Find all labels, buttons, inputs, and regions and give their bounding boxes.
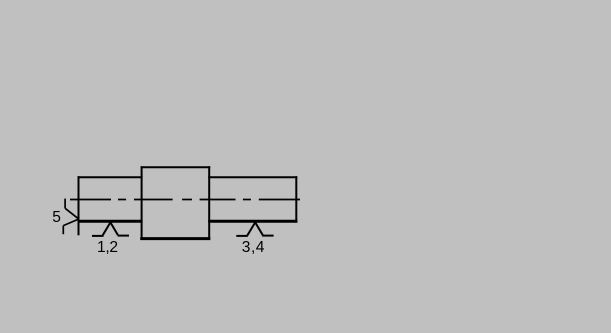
- bearing support 3,4 (under right shaft section): [236, 222, 273, 236]
- wire: left shaft section top line: [78, 176, 143, 178]
- wire: right shaft section bottom bold line: [208, 220, 297, 223]
- wire: right shaft section top line: [208, 176, 297, 178]
- svg-text:5: 5: [52, 209, 61, 226]
- node 5: corner fixity symbol at left shoulder: [63, 199, 78, 235]
- wire: center block top line: [141, 166, 211, 168]
- wire: center block right edge: [208, 166, 210, 240]
- svg-text:1,2: 1,2: [97, 239, 118, 256]
- wire: centerline (chain line) dashes: [70, 199, 300, 201]
- wire: center block bottom bold line: [140, 237, 210, 240]
- wire: left shaft section left edge (extends below to support 5): [78, 176, 80, 235]
- svg-text:3,4: 3,4: [242, 239, 265, 256]
- bearing support 1,2 (under left shaft section): [92, 222, 129, 236]
- wire: left shaft section bottom bold line: [78, 220, 143, 223]
- wire: right shaft section right edge: [295, 176, 297, 222]
- wire: center block left edge: [141, 166, 143, 240]
